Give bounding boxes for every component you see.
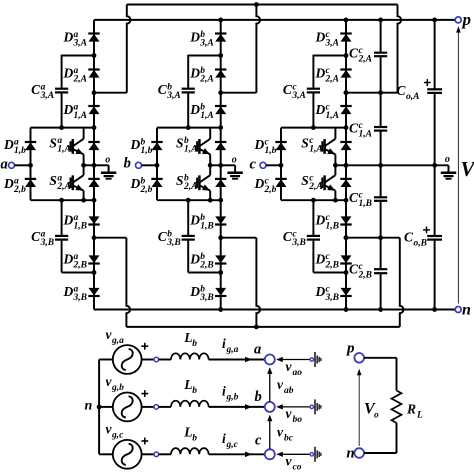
node D2B-D3B phase c (344, 270, 349, 275)
diode D2,B^c (341, 255, 352, 263)
wire inductor to node c with current arrow ig,c (209, 453, 265, 455)
node b circle (265, 402, 275, 412)
node D2B-D3B phase a (92, 270, 97, 275)
ground o right side (448, 164, 450, 166)
diode D2,A^c (341, 70, 352, 78)
terminal n load side (354, 448, 364, 458)
cell mid node phase b (208, 163, 213, 168)
wire phase c D1B/D2B midpoint row (346, 237, 400, 239)
arrow vao to reference (278, 359, 311, 361)
wire C3B to node phase a (61, 240, 63, 272)
arrow vbo to reference (278, 406, 311, 408)
wire p to resistor (364, 357, 397, 359)
wire C3B to node phase b (187, 240, 189, 272)
capacitor C2,B^c (374, 268, 387, 270)
svg-text:n: n (347, 446, 355, 462)
n-rail junction dots (218, 307, 223, 312)
capacitor C3,A^b (182, 88, 195, 90)
node bottom tie bus - phase b riser (254, 325, 259, 330)
diode D1,b^c (276, 142, 287, 150)
terminal b input (136, 162, 142, 168)
ground o stub phase a (94, 164, 109, 166)
clamp diode bottom phase a (89, 179, 100, 187)
terminal a input (9, 162, 15, 168)
wire to flying cap C3B phase a (61, 200, 63, 235)
diode D1,b^a (25, 142, 36, 150)
source a output node circle (142, 359, 154, 361)
diode D2,b^a (25, 179, 36, 187)
AC source vg,b (113, 393, 142, 422)
diode D2,B^a (89, 255, 100, 263)
diode D2,b^c (276, 179, 287, 187)
svg-text:p: p (345, 341, 355, 357)
wire neutral to source c (99, 453, 113, 455)
wire n-rail bottom bus (94, 309, 455, 311)
capacitor C3,B^c (307, 235, 320, 237)
node D1B-D2B phase c (344, 235, 349, 240)
mid o-rail phase c to right side (346, 164, 449, 166)
IGBT S1,A^b (209, 128, 211, 139)
riser top phase c from tie bus (398, 5, 402, 93)
AC source vg,c (113, 440, 142, 469)
IGBT S2,A^c (334, 165, 336, 175)
AC source vg,a (113, 345, 142, 374)
clamp diode bottom phase b (215, 179, 226, 187)
diode D3,A^a (89, 34, 100, 42)
wire C3A to cell top rail phase c (312, 93, 314, 127)
capacitor Co,A (427, 88, 442, 90)
riser top phase a (D2A/D1A midpoint to top tie bus) (94, 92, 127, 94)
wire inductor to node a with current arrow ig,a (209, 359, 265, 361)
plus sign source b (141, 393, 148, 395)
diode D3,B^a (89, 288, 100, 296)
cell mid node phase a (81, 163, 86, 168)
input branch vertical phase b (156, 128, 158, 201)
wire inductor to node b with current arrow ig,b (209, 406, 265, 408)
node D3A-D2A phase b (218, 53, 223, 58)
diode D1,B^c (341, 216, 352, 224)
diode D1,A^a (89, 106, 100, 114)
wire C3A to cell top rail phase a (61, 93, 63, 127)
plus sign Co,A (424, 82, 431, 84)
svg-text:o: o (445, 154, 450, 165)
plus sign source c (141, 440, 148, 442)
cell top rail phase c (281, 127, 346, 129)
cell top rail phase a (31, 127, 95, 129)
svg-text:b: b (124, 156, 131, 172)
ground o stub phase b (221, 164, 235, 166)
node D2A-D1A phase b (218, 90, 223, 95)
diode D3,B^c (341, 288, 352, 296)
wire terminal c to branch (266, 164, 281, 166)
capacitor Co,B (427, 235, 442, 237)
wire bottom tie bus (D1B/D2B midpoint bus) (126, 326, 399, 328)
voltage V arrow right edge (457, 29, 459, 304)
capacitor chain vertical x=380.6 segments (380, 20, 382, 52)
cell bottom rail phase c (281, 199, 346, 201)
wire phase c D2A/D1A midpoint row (346, 92, 398, 94)
diode D3,A^c (341, 34, 352, 42)
diode D1,A^b (215, 106, 226, 114)
wire to flying cap C3A phase b (188, 55, 221, 57)
arrow vbc between nodes b and c (269, 416, 271, 449)
wire neutral to source b (99, 406, 113, 408)
capacitor C3,A^a (55, 88, 68, 90)
wire p-rail top bus (94, 19, 455, 21)
node a circle (265, 355, 275, 365)
IGBT S1,A^a (83, 128, 85, 139)
svg-text:o: o (232, 154, 237, 165)
riser top phase b (D2A/D1A midpoint to top tie bus) (221, 92, 257, 94)
terminal p load side (354, 353, 364, 363)
reference o symbol row a (310, 358, 313, 361)
source c output node circle (142, 453, 154, 455)
p-rail junction dots (218, 18, 223, 23)
IGBT S2,A^b (209, 165, 211, 175)
terminal c input (260, 162, 266, 168)
node c circle (265, 449, 275, 459)
resistor RL (392, 391, 402, 423)
terminal n right (455, 307, 461, 313)
svg-text:V: V (461, 157, 474, 181)
phase a main vertical line (93, 20, 95, 310)
plus sign source a (141, 345, 148, 347)
IGBT S2,A^a (83, 165, 85, 175)
svg-text:c: c (255, 433, 262, 449)
svg-text:a: a (254, 342, 261, 358)
wire to inductor c (159, 453, 171, 455)
node D2A-D1A phase c (344, 90, 349, 95)
voltage Vo arrow (358, 371, 360, 446)
wire to flying cap C3B phase b (187, 200, 189, 235)
inductor Lb b (171, 401, 209, 407)
wire neutral to source a (99, 359, 113, 361)
riser bottom phase b (D1B/D2B midpoint to bottom tie bus) (221, 237, 257, 239)
phase b main vertical line (220, 20, 222, 310)
node D2A-D1A phase a (92, 90, 97, 95)
wire to flying cap C3A phase c (313, 55, 346, 57)
wire C3A to cell top rail phase b (187, 93, 189, 127)
svg-text:p: p (461, 10, 472, 29)
wire to flying cap C3A phase a (62, 55, 94, 57)
neutral vertical wire left (98, 360, 100, 455)
diode D1,B^b (215, 216, 226, 224)
node D1B-D2B phase a (92, 235, 97, 240)
diode D2,b^b (152, 179, 163, 187)
wire to inductor b (159, 406, 171, 408)
input branch vertical phase a (30, 128, 32, 201)
inductor Lb a (171, 353, 209, 359)
output cap vertical x=434.6 segments (434, 20, 436, 89)
capacitor C3,A^c (307, 88, 320, 90)
phase c main vertical line (345, 20, 347, 310)
svg-text:b: b (255, 389, 262, 405)
terminal p (455, 17, 461, 23)
arrow vab between nodes a and b (269, 369, 271, 402)
clamp diode top phase c (341, 142, 352, 150)
clamp diode bottom phase c (341, 179, 352, 187)
wire to flying cap C3B phase c (312, 200, 314, 235)
wire top tie bus (D2/D1 midpoint bus) (127, 4, 398, 6)
diode D1,b^b (152, 142, 163, 150)
reference o symbol row c (310, 453, 313, 456)
reference o symbol row b (310, 405, 313, 408)
diode D3,A^b (215, 34, 226, 42)
svg-text:n: n (462, 302, 471, 319)
wire C3B to node phase c (312, 240, 314, 272)
capacitor C1,B^c (374, 196, 387, 198)
capacitor C3,B^a (55, 235, 68, 237)
wire terminal b to branch (142, 164, 158, 166)
diode D1,B^a (89, 216, 100, 224)
input branch vertical phase c (280, 128, 282, 201)
wire terminal a to branch (15, 164, 31, 166)
cell mid node phase c (333, 163, 338, 168)
node D3A-D2A phase a (92, 53, 97, 58)
clamp diode top phase a (89, 142, 100, 150)
cell top rail phase b (157, 127, 221, 129)
riser bottom phase a (D1B/D2B midpoint to bottom tie bus) (94, 237, 126, 239)
diode D1,A^c (341, 106, 352, 114)
diode D3,B^b (215, 288, 226, 296)
plus sign Co,B (423, 229, 430, 231)
wire resistor to n (396, 423, 398, 453)
capacitor C1,A^c (374, 126, 387, 128)
source b output node circle (142, 406, 154, 408)
wire to inductor a (159, 359, 171, 361)
svg-text:o: o (105, 154, 110, 165)
node top tie bus - phase b riser (254, 2, 259, 7)
cell bottom rail phase a (31, 199, 95, 201)
node D1B-D2B phase b (218, 235, 223, 240)
IGBT S1,A^c (334, 128, 336, 139)
node n neutral (97, 405, 102, 410)
diode D2,B^b (215, 255, 226, 263)
riser bottom phase c to tie bus (400, 238, 404, 327)
capacitor C2,A^c (374, 52, 387, 54)
cell bottom rail phase b (157, 199, 221, 201)
arrow vco to reference (278, 453, 311, 455)
node D2B-D3B phase b (218, 270, 223, 275)
clamp diode top phase b (215, 142, 226, 150)
diode D2,A^b (215, 70, 226, 78)
inductor Lb c (171, 448, 209, 454)
diode D2,A^a (89, 70, 100, 78)
node D3A-D2A phase c (344, 53, 349, 58)
svg-text:c: c (250, 157, 257, 173)
svg-text:n: n (85, 399, 93, 414)
capacitor C3,B^b (182, 235, 195, 237)
svg-text:a: a (1, 157, 8, 173)
